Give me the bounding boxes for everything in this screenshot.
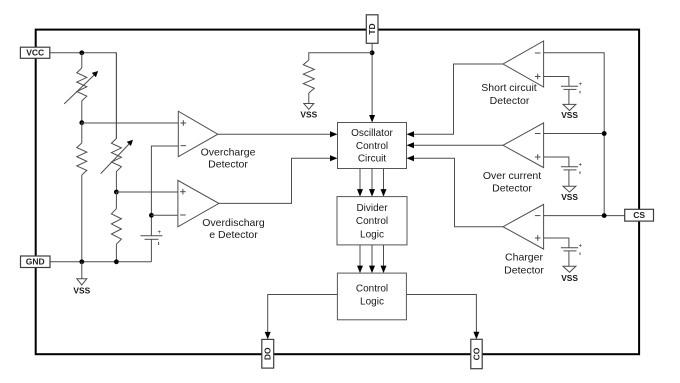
- svg-text:Control: Control: [356, 216, 388, 227]
- comparator U7 over current detector: [503, 123, 544, 168]
- svg-text:e Detector: e Detector: [209, 229, 258, 241]
- wire oscillator to divider arrow 1: [357, 169, 363, 197]
- svg-text:+: +: [579, 82, 583, 88]
- port TD: [366, 15, 378, 44]
- svg-text:Control: Control: [356, 283, 388, 294]
- op-amp U1 overcharge detector: [178, 111, 218, 157]
- svg-text:VSS: VSS: [561, 192, 578, 202]
- svg-text:Control: Control: [356, 141, 388, 152]
- wire U8 output to oscillator: [414, 158, 504, 227]
- arrow of variable resistor VR2: [101, 140, 133, 174]
- svg-text:VSS: VSS: [561, 273, 578, 283]
- svg-text:VSS: VSS: [561, 110, 578, 120]
- wire TD branch to resistor: [309, 53, 372, 60]
- node bus/U7: [602, 131, 607, 136]
- wire VR1 top lead: [81, 53, 83, 68]
- wire tap to overdischarge + input: [116, 191, 177, 193]
- block U5 control logic: [337, 273, 406, 320]
- resistor R2: [77, 143, 87, 175]
- battery V1 reference: [140, 230, 162, 262]
- svg-text:Detector: Detector: [490, 95, 530, 107]
- comparator U8 charger detector: [503, 204, 544, 249]
- svg-text:CO: CO: [471, 347, 481, 360]
- wire U6 - input to bus: [544, 53, 605, 216]
- svg-text:TD: TD: [367, 23, 377, 34]
- port CS: [625, 209, 654, 221]
- wire R4 bottom lead: [308, 93, 310, 104]
- svg-text:VCC: VCC: [26, 48, 44, 58]
- wire VR1 bottom lead: [81, 101, 83, 123]
- wire U6 output to oscillator: [414, 64, 504, 134]
- wire to overdischarge - input: [151, 214, 178, 216]
- wire VR2 bottom lead: [115, 172, 117, 193]
- wire divider to control arrow 1: [357, 245, 363, 273]
- wire oscillator to divider arrow 3: [381, 169, 387, 197]
- wire GND rail: [50, 261, 151, 263]
- ground VSS left: [73, 262, 90, 296]
- wire U2 output to oscillator: [219, 158, 331, 203]
- svg-text:CS: CS: [633, 210, 645, 220]
- node R2/GND: [79, 259, 84, 264]
- wire U7 + input to battery: [544, 157, 569, 167]
- svg-text:Divider: Divider: [356, 203, 388, 214]
- op-amp U2 overdischarge detector: [178, 180, 219, 226]
- wire R2 bottom lead: [81, 175, 83, 262]
- svg-text:+: +: [579, 162, 583, 168]
- wire reference branch vertical: [151, 146, 178, 236]
- wire R3 bottom lead: [115, 244, 117, 262]
- svg-text:VSS: VSS: [73, 286, 90, 296]
- svg-text:Logic: Logic: [360, 296, 384, 307]
- svg-text:GND: GND: [26, 257, 45, 267]
- resistor VR2: [111, 139, 121, 172]
- wire VCC rail top: [50, 53, 117, 139]
- ground VSS comparator 2: [561, 186, 578, 202]
- svg-text:Detector: Detector: [208, 159, 248, 171]
- svg-text:DO: DO: [263, 347, 273, 360]
- node VCC/VR1 junction: [79, 50, 84, 55]
- node bus/U8/CS: [602, 213, 607, 218]
- wire TD net: [371, 43, 373, 115]
- battery V3 reference: [561, 162, 583, 186]
- resistor R4 (TD timing): [303, 60, 314, 93]
- resistor VR1: [77, 68, 87, 101]
- port GND: [21, 256, 51, 268]
- wire control logic to CO: [406, 295, 476, 333]
- svg-text:Oscillator: Oscillator: [351, 128, 393, 139]
- wire U7 - input to bus: [544, 133, 605, 135]
- port VCC: [20, 47, 49, 58]
- arrow of variable resistor VR1: [64, 71, 98, 104]
- svg-text:VSS: VSS: [300, 109, 317, 119]
- svg-text:Short circuit: Short circuit: [481, 82, 537, 94]
- node R3/GND: [114, 259, 119, 264]
- ground VSS comparator 3: [561, 266, 578, 283]
- wire tap to overcharge + input: [82, 122, 179, 124]
- svg-text:Overdischarg: Overdischarg: [202, 217, 265, 229]
- wire VR2 top lead: [115, 53, 117, 139]
- svg-text:+: +: [579, 243, 583, 249]
- svg-text:+: +: [158, 230, 162, 236]
- svg-text:Over current: Over current: [483, 170, 541, 182]
- svg-text:Circuit: Circuit: [358, 154, 387, 165]
- wire control logic to DO: [268, 295, 338, 333]
- wire U6 + input to battery: [544, 77, 569, 87]
- border frame: [36, 30, 639, 355]
- wire R2 top lead: [81, 123, 83, 143]
- wire divider to control arrow 3: [381, 245, 387, 273]
- node TD junction: [370, 50, 375, 55]
- battery V2 reference: [561, 82, 583, 105]
- wire divider to control arrow 2: [369, 245, 375, 273]
- wire R3 top lead: [115, 192, 117, 209]
- svg-text:Detector: Detector: [504, 265, 544, 277]
- wire U7 output to oscillator: [414, 144, 504, 146]
- block U3 oscillator control circuit: [338, 123, 407, 169]
- node C (reference to overdischarge -): [149, 213, 154, 218]
- resistor R3: [111, 209, 121, 245]
- port DO: [262, 339, 274, 368]
- svg-text:Logic: Logic: [360, 229, 384, 240]
- port CO: [471, 339, 482, 368]
- wire U8 - input to CS: [544, 215, 625, 217]
- wire oscillator to divider arrow 2: [369, 169, 375, 197]
- svg-text:Charger: Charger: [505, 252, 543, 264]
- svg-text:Detector: Detector: [492, 183, 532, 195]
- block U4 divider control logic: [337, 197, 407, 245]
- ground VSS top middle: [300, 104, 317, 120]
- comparator U6 short circuit detector: [503, 41, 544, 87]
- svg-text:Overcharge: Overcharge: [201, 146, 256, 158]
- wire U1 output to oscillator: [218, 133, 331, 135]
- node A (VR1/R2 divider tap): [79, 120, 84, 125]
- ground VSS comparator 1: [561, 104, 578, 120]
- battery V4 reference: [561, 243, 583, 266]
- wire U8 + input to battery: [544, 238, 569, 248]
- node B (VR2/R3 divider tap): [114, 190, 119, 195]
